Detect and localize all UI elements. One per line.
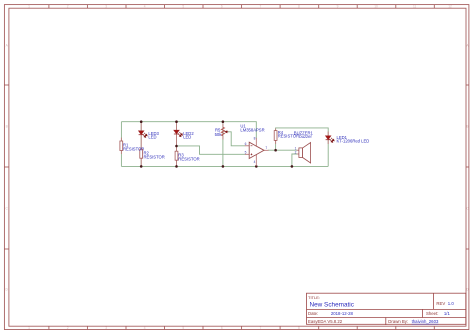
svg-text:1: 1 <box>28 326 30 330</box>
svg-text:12: 12 <box>448 5 452 9</box>
svg-text:New Schematic: New Schematic <box>310 302 355 309</box>
svg-text:2: 2 <box>67 326 69 330</box>
svg-text:4: 4 <box>254 160 256 164</box>
svg-text:2018-12-28: 2018-12-28 <box>331 311 354 316</box>
svg-text:B: B <box>466 124 468 128</box>
svg-text:11: 11 <box>413 5 417 9</box>
svg-text:RESISTOR: RESISTOR <box>123 146 144 151</box>
svg-text:4: 4 <box>144 5 146 9</box>
svg-text:7: 7 <box>260 326 262 330</box>
svg-text:6: 6 <box>245 142 247 146</box>
svg-text:7: 7 <box>265 146 267 150</box>
svg-text:6: 6 <box>221 326 223 330</box>
svg-text:8: 8 <box>298 326 300 330</box>
svg-text:1.0: 1.0 <box>448 301 455 306</box>
svg-text:3: 3 <box>105 5 107 9</box>
svg-text:buzzer: buzzer <box>299 134 312 139</box>
svg-text:B: B <box>6 124 8 128</box>
svg-text:REV: REV <box>436 301 445 306</box>
svg-text:Sheet:: Sheet: <box>426 311 438 316</box>
svg-text:8: 8 <box>298 5 300 9</box>
svg-text:2: 2 <box>295 150 297 154</box>
svg-text:Date:: Date: <box>308 311 318 316</box>
svg-text:C: C <box>6 206 9 210</box>
svg-text:LM358APSR: LM358APSR <box>240 127 264 132</box>
svg-text:thaivinh_2603: thaivinh_2603 <box>412 319 439 324</box>
svg-text:8: 8 <box>254 137 256 141</box>
svg-text:5: 5 <box>245 151 247 155</box>
svg-text:3: 3 <box>105 326 107 330</box>
svg-text:1/1: 1/1 <box>444 311 451 316</box>
svg-text:2: 2 <box>67 5 69 9</box>
svg-text:D: D <box>6 287 9 291</box>
svg-text:EasyEDA V5.8.22: EasyEDA V5.8.22 <box>308 319 343 324</box>
svg-text:LED: LED <box>183 135 191 140</box>
svg-text:KT-1206Red LED: KT-1206Red LED <box>337 139 370 144</box>
svg-text:7: 7 <box>260 5 262 9</box>
svg-text:TITLE:: TITLE: <box>308 295 320 300</box>
svg-text:5: 5 <box>182 5 184 9</box>
svg-text:A: A <box>6 43 9 47</box>
svg-text:Drawn By:: Drawn By: <box>388 319 408 324</box>
svg-text:1: 1 <box>28 5 30 9</box>
svg-text:9: 9 <box>337 5 339 9</box>
svg-text:50k: 50k <box>215 132 223 137</box>
svg-text:RESISTOR: RESISTOR <box>144 154 165 159</box>
svg-text:LED: LED <box>148 135 156 140</box>
svg-text:10: 10 <box>374 5 378 9</box>
svg-text:6: 6 <box>221 5 223 9</box>
svg-text:RESISTOR: RESISTOR <box>178 156 199 161</box>
svg-text:5: 5 <box>182 326 184 330</box>
svg-text:4: 4 <box>144 326 146 330</box>
